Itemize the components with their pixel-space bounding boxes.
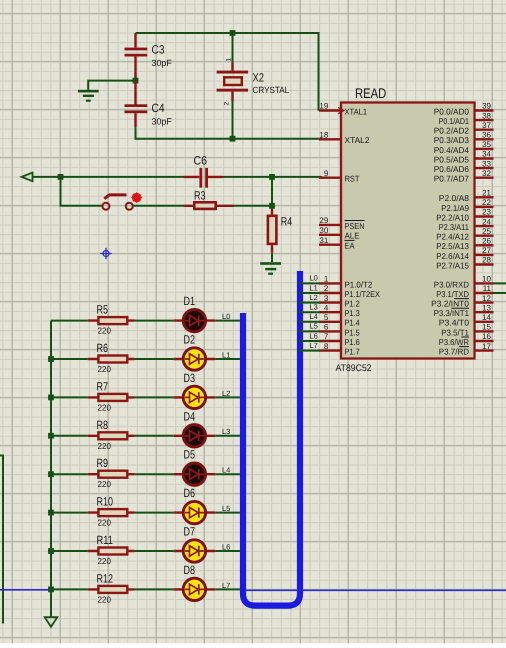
svg-text:P3.7/RD: P3.7/RD xyxy=(439,347,469,357)
wire to ground xyxy=(88,81,135,90)
svg-text:L2: L2 xyxy=(222,389,230,398)
svg-text:L1: L1 xyxy=(310,283,318,292)
wire rail to R11 xyxy=(51,550,88,552)
pin 33 stub xyxy=(475,167,494,169)
wire D4 to bus xyxy=(215,435,240,437)
svg-text:D5: D5 xyxy=(184,448,196,462)
wire rail to R7 xyxy=(51,396,88,398)
pin 9 stub xyxy=(319,176,341,178)
svg-text:1: 1 xyxy=(226,58,233,62)
microcontroller U1 AT89C52 body xyxy=(341,103,475,359)
svg-text:16: 16 xyxy=(482,332,491,341)
svg-text:D1: D1 xyxy=(184,294,196,308)
svg-text:R7: R7 xyxy=(97,379,109,393)
svg-text:L3: L3 xyxy=(222,427,230,436)
wire bus entry L1 xyxy=(299,292,320,294)
svg-text:30pF: 30pF xyxy=(152,116,173,126)
svg-text:L7: L7 xyxy=(222,581,230,590)
svg-text:R10: R10 xyxy=(97,495,114,509)
svg-text:P0.0/AD0: P0.0/AD0 xyxy=(434,106,470,116)
switch lever arm xyxy=(104,195,126,199)
svg-text:7: 7 xyxy=(324,332,329,341)
svg-text:30: 30 xyxy=(319,226,328,235)
wire D3 to bus xyxy=(215,396,240,398)
svg-text:220: 220 xyxy=(98,441,112,451)
svg-text:READ: READ xyxy=(355,85,386,101)
svg-text:10: 10 xyxy=(482,275,491,284)
LED D5 xyxy=(174,463,216,485)
wire thin blue left xyxy=(0,589,48,591)
junction rail row 5 xyxy=(48,471,54,477)
resistor R6 xyxy=(88,356,135,363)
svg-text:28: 28 xyxy=(482,256,491,265)
wire R5 to D1 xyxy=(135,320,174,322)
svg-text:R9: R9 xyxy=(97,456,109,470)
wire RST left xyxy=(33,176,184,178)
resistor R10 xyxy=(88,509,135,516)
svg-text:23: 23 xyxy=(482,208,491,217)
svg-text:D2: D2 xyxy=(184,333,196,347)
svg-text:D3: D3 xyxy=(184,371,196,385)
wire bus entry L6 xyxy=(299,340,320,342)
LED D8 xyxy=(174,578,216,600)
svg-text:P0.7/AD7: P0.7/AD7 xyxy=(434,174,470,184)
wire D5 to bus xyxy=(215,473,240,475)
pin 3 stub xyxy=(319,301,341,303)
pin 15 stub xyxy=(475,330,494,332)
svg-text:220: 220 xyxy=(98,326,112,336)
bus (blue) xyxy=(243,271,300,606)
svg-text:13: 13 xyxy=(482,303,491,312)
wire left edge vertical xyxy=(0,455,3,624)
svg-text:R8: R8 xyxy=(97,418,109,432)
resistor R12 xyxy=(88,586,135,593)
wire RST to R4 xyxy=(271,177,273,209)
pin 39 stub xyxy=(475,109,494,111)
svg-text:D7: D7 xyxy=(184,525,196,539)
svg-text:29: 29 xyxy=(319,216,328,225)
pin 18 stub xyxy=(319,138,341,140)
pin 11 stub xyxy=(475,292,494,294)
pin 2 stub xyxy=(319,292,341,294)
svg-text:P0.1/AD1: P0.1/AD1 xyxy=(439,116,470,126)
wire XTAL1 net top xyxy=(136,33,319,111)
underline TXD xyxy=(454,298,469,300)
wire bus entry L4 xyxy=(299,321,320,323)
junction rail row 7 xyxy=(48,548,54,554)
svg-text:3: 3 xyxy=(324,294,329,303)
svg-text:CRYSTAL: CRYSTAL xyxy=(253,85,290,95)
terminal arrow bottom (rail) xyxy=(45,617,58,627)
terminal arrow left (RST net) xyxy=(22,173,33,182)
wire R12 to D8 xyxy=(135,588,174,590)
junction rail row 6 xyxy=(48,510,54,516)
switch contact left xyxy=(102,203,109,210)
resistor R4 xyxy=(268,209,277,253)
resistor R7 xyxy=(88,394,135,401)
svg-text:P0.6/AD6: P0.6/AD6 xyxy=(434,164,470,174)
svg-text:RST: RST xyxy=(345,174,360,184)
svg-text:38: 38 xyxy=(482,111,491,120)
junction RST/switch branch xyxy=(58,174,64,180)
pin 31 stub xyxy=(319,243,341,245)
overline PSEN xyxy=(345,220,365,222)
underline T1 xyxy=(461,336,469,338)
svg-text:34: 34 xyxy=(482,150,491,159)
svg-text:D4: D4 xyxy=(184,409,196,423)
LED rail vertical wire xyxy=(50,321,52,617)
svg-text:P3.6/WR: P3.6/WR xyxy=(439,337,469,347)
junction R3/R4 xyxy=(269,203,275,209)
wire bus entry L7 xyxy=(299,350,320,352)
wire bus entry L3 xyxy=(299,311,320,313)
wire rail to R5 xyxy=(51,320,88,322)
wire rail to R10 xyxy=(51,512,88,514)
svg-text:AT89C52: AT89C52 xyxy=(336,363,372,374)
svg-text:22: 22 xyxy=(482,198,491,207)
svg-text:26: 26 xyxy=(482,237,491,246)
svg-text:P2.6/A14: P2.6/A14 xyxy=(436,251,469,261)
svg-text:P1.5: P1.5 xyxy=(345,327,360,337)
junction rail row 8 xyxy=(48,587,54,593)
wire R8 to D4 xyxy=(135,435,174,437)
capacitor C6 xyxy=(184,168,224,188)
wire thin blue right xyxy=(246,589,506,591)
resistor R3 xyxy=(184,202,234,209)
wire R7 to D3 xyxy=(135,396,174,398)
LED D6 xyxy=(174,501,216,523)
pin 28 stub xyxy=(475,263,494,265)
pin 5 stub xyxy=(319,321,341,323)
pin 34 stub xyxy=(475,157,494,159)
svg-text:37: 37 xyxy=(482,121,491,130)
crystal X2 xyxy=(217,63,249,102)
svg-text:15: 15 xyxy=(482,323,491,332)
svg-text:P0.3/AD3: P0.3/AD3 xyxy=(434,135,470,145)
wire crystal pin1 xyxy=(232,33,234,63)
svg-text:XTAL2: XTAL2 xyxy=(345,135,370,145)
pin 22 stub xyxy=(475,206,494,208)
svg-text:C3: C3 xyxy=(152,43,165,57)
svg-text:P3.5/T1: P3.5/T1 xyxy=(441,327,469,337)
svg-text:21: 21 xyxy=(482,189,491,198)
wire switch to R3 xyxy=(133,205,184,207)
wire C3-C4 xyxy=(135,78,137,105)
svg-text:220: 220 xyxy=(98,364,112,374)
svg-text:X2: X2 xyxy=(253,71,265,85)
pin 17 stub xyxy=(475,349,494,351)
svg-text:P3.1/TXD: P3.1/TXD xyxy=(436,289,469,299)
wire R6 to D2 xyxy=(135,358,174,360)
svg-text:C4: C4 xyxy=(152,101,165,115)
underline INT0 xyxy=(451,307,469,309)
LED D4 xyxy=(174,425,216,447)
pin 27 stub xyxy=(475,254,494,256)
svg-text:1: 1 xyxy=(324,275,329,284)
LED D1 xyxy=(174,309,216,331)
svg-text:R3: R3 xyxy=(194,189,206,203)
svg-text:33: 33 xyxy=(482,159,491,168)
wire XTAL2 net bottom xyxy=(136,114,323,139)
svg-text:ALE: ALE xyxy=(345,231,360,241)
junction rail row 2 xyxy=(48,356,54,362)
svg-text:L6: L6 xyxy=(222,542,230,551)
pin 30 stub xyxy=(319,234,341,236)
wire to switch xyxy=(61,177,103,206)
svg-text:220: 220 xyxy=(98,556,112,566)
svg-text:C6: C6 xyxy=(194,153,208,167)
svg-text:L3: L3 xyxy=(310,303,318,312)
pin 23 stub xyxy=(475,215,494,217)
svg-text:L5: L5 xyxy=(222,504,230,513)
svg-text:R4: R4 xyxy=(281,215,293,229)
junction rail row 4 xyxy=(48,433,54,439)
svg-text:D6: D6 xyxy=(184,486,196,500)
svg-text:L0: L0 xyxy=(222,312,230,321)
pin 14 stub xyxy=(475,321,494,323)
pin 37 stub xyxy=(475,128,494,130)
svg-text:P1.6: P1.6 xyxy=(345,337,360,347)
junction rail row 3 xyxy=(48,395,54,401)
svg-text:36: 36 xyxy=(482,131,491,140)
capacitor C4 xyxy=(125,81,148,127)
svg-text:27: 27 xyxy=(482,246,491,255)
wire rail to R8 xyxy=(51,435,88,437)
svg-text:32: 32 xyxy=(482,169,491,178)
capacitor C3 xyxy=(125,33,148,78)
pin 24 stub xyxy=(475,225,494,227)
svg-text:P1.1/T2EX: P1.1/T2EX xyxy=(345,289,381,299)
svg-text:220: 220 xyxy=(98,402,112,412)
pin 32 stub xyxy=(475,176,494,178)
svg-text:XTAL1: XTAL1 xyxy=(345,106,368,116)
pin 13 stub xyxy=(475,311,494,313)
wire bus entry L0 xyxy=(299,282,320,284)
svg-text:R6: R6 xyxy=(97,341,109,355)
wire R11 to D7 xyxy=(135,550,174,552)
svg-text:P0.4/AD4: P0.4/AD4 xyxy=(434,145,470,155)
wire rail to R9 xyxy=(51,473,88,475)
wire crystal pin2 xyxy=(232,101,234,139)
svg-text:P3.2/INT0: P3.2/INT0 xyxy=(431,299,469,309)
pin 21 stub xyxy=(475,196,494,198)
svg-text:D8: D8 xyxy=(184,563,196,577)
junction C3/C4/ground xyxy=(133,78,139,84)
svg-text:P3.3/INT1: P3.3/INT1 xyxy=(434,308,470,318)
pin 25 stub xyxy=(475,234,494,236)
svg-text:35: 35 xyxy=(482,140,491,149)
wire R4 to ground xyxy=(271,253,273,262)
pin 4 stub xyxy=(319,311,341,313)
svg-text:18: 18 xyxy=(319,131,328,140)
pin 8 stub xyxy=(319,349,341,351)
svg-text:R12: R12 xyxy=(97,571,114,585)
underline WR xyxy=(459,346,469,348)
pin 35 stub xyxy=(475,148,494,150)
svg-text:L4: L4 xyxy=(222,466,230,475)
svg-text:R5: R5 xyxy=(97,303,109,317)
svg-text:39: 39 xyxy=(482,102,491,111)
resistor R8 xyxy=(88,432,135,439)
svg-text:P2.0/A8: P2.0/A8 xyxy=(439,193,470,203)
svg-text:220: 220 xyxy=(98,518,112,528)
svg-text:2: 2 xyxy=(224,102,231,106)
svg-text:220: 220 xyxy=(98,479,112,489)
origin marker xyxy=(100,248,111,259)
svg-text:14: 14 xyxy=(482,313,491,322)
wire D7 to bus xyxy=(215,550,240,552)
pin 12 stub xyxy=(475,301,494,303)
wire P3.0 to edge xyxy=(494,282,506,284)
svg-text:P3.4/T0: P3.4/T0 xyxy=(439,318,470,328)
svg-text:P1.7: P1.7 xyxy=(345,347,360,357)
svg-text:P1.2: P1.2 xyxy=(345,299,360,309)
svg-text:24: 24 xyxy=(482,217,491,226)
LED D2 xyxy=(174,348,216,370)
wire R10 to D6 xyxy=(135,512,174,514)
pin 6 stub xyxy=(319,330,341,332)
svg-text:220: 220 xyxy=(98,594,112,604)
wire rail to R12 xyxy=(51,588,88,590)
svg-text:5: 5 xyxy=(324,313,329,322)
svg-text:L5: L5 xyxy=(310,322,318,331)
wire D6 to bus xyxy=(215,512,240,514)
svg-text:P2.1/A9: P2.1/A9 xyxy=(441,203,469,213)
svg-text:P2.7/A15: P2.7/A15 xyxy=(436,260,469,270)
wire D2 to bus xyxy=(215,358,240,360)
svg-text:P3.0/RXD: P3.0/RXD xyxy=(434,279,469,289)
wire RST right to pin 9 xyxy=(223,176,322,178)
svg-text:19: 19 xyxy=(319,102,328,111)
ground symbol below R4 xyxy=(260,262,281,275)
svg-text:31: 31 xyxy=(319,236,328,245)
junction crystal bottom xyxy=(230,136,236,142)
clock input triangle XTAL1 xyxy=(338,107,344,113)
wire D8 to bus xyxy=(215,588,240,590)
svg-text:P2.4/A12: P2.4/A12 xyxy=(436,232,469,242)
svg-text:P2.2/A10: P2.2/A10 xyxy=(436,212,469,222)
switch contact right xyxy=(126,203,133,210)
junction crystal top xyxy=(230,30,236,36)
svg-text:6: 6 xyxy=(324,323,329,332)
svg-text:P1.4: P1.4 xyxy=(345,318,360,328)
svg-text:EA: EA xyxy=(345,241,355,251)
svg-text:17: 17 xyxy=(482,342,491,351)
wire P3.1 to edge xyxy=(494,292,506,294)
svg-text:P0.2/AD2: P0.2/AD2 xyxy=(434,126,470,136)
svg-text:L2: L2 xyxy=(310,293,318,302)
pin 38 stub xyxy=(475,119,494,121)
junction RST/R4 branch xyxy=(269,174,275,180)
resistor R9 xyxy=(88,471,135,478)
LED D7 xyxy=(174,540,216,562)
pin 16 stub xyxy=(475,340,494,342)
svg-text:P2.3/A11: P2.3/A11 xyxy=(439,222,470,232)
svg-text:30pF: 30pF xyxy=(152,58,173,68)
svg-text:P1.3: P1.3 xyxy=(345,308,360,318)
svg-text:L4: L4 xyxy=(310,312,318,321)
svg-text:9: 9 xyxy=(324,169,329,178)
pin 1 stub xyxy=(319,282,341,284)
pin 36 stub xyxy=(475,138,494,140)
LED D3 xyxy=(174,386,216,408)
underline AL xyxy=(345,239,355,241)
pin 7 stub xyxy=(319,340,341,342)
svg-text:P0.5/AD5: P0.5/AD5 xyxy=(434,154,470,164)
wire R3 to node xyxy=(234,205,273,207)
pin 29 stub xyxy=(319,224,341,226)
wire rail to R6 xyxy=(51,358,88,360)
pin 26 stub xyxy=(475,244,494,246)
svg-text:PSEN: PSEN xyxy=(345,221,365,231)
svg-text:L6: L6 xyxy=(310,331,318,340)
svg-text:4: 4 xyxy=(324,303,329,312)
svg-text:12: 12 xyxy=(482,294,491,303)
wire bus entry L5 xyxy=(299,330,320,332)
svg-text:L7: L7 xyxy=(310,341,318,350)
svg-text:25: 25 xyxy=(482,227,491,236)
svg-text:R11: R11 xyxy=(97,533,114,547)
pin 10 stub xyxy=(475,282,494,284)
pin 19 stub xyxy=(319,109,341,111)
svg-text:P2.5/A13: P2.5/A13 xyxy=(436,241,469,251)
svg-text:8: 8 xyxy=(324,342,329,351)
ground symbol left xyxy=(78,90,99,102)
switch toggle marker xyxy=(131,192,142,203)
svg-text:L1: L1 xyxy=(222,350,230,359)
wire D1 to bus xyxy=(215,320,240,322)
wire bus entry L2 xyxy=(299,302,320,304)
resistor R11 xyxy=(88,548,135,555)
svg-text:11: 11 xyxy=(483,284,492,293)
svg-text:L0: L0 xyxy=(310,274,318,283)
svg-text:P1.0/T2: P1.0/T2 xyxy=(345,279,373,289)
svg-text:2: 2 xyxy=(324,284,329,293)
wire R9 to D5 xyxy=(135,473,174,475)
resistor R5 xyxy=(88,317,135,324)
